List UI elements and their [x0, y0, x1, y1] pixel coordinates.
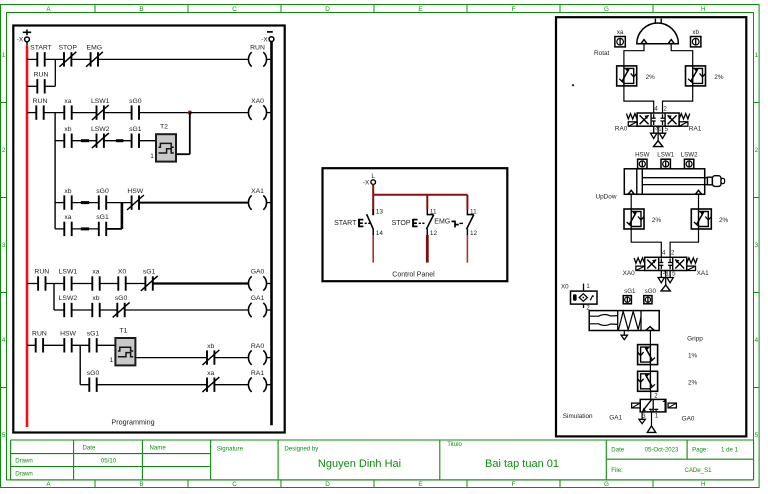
svg-text:Name: Name [150, 445, 167, 452]
wire throttle to valve RA port4 [624, 86, 654, 113]
svg-text:GA1: GA1 [251, 295, 265, 302]
wire sG0 to merge node C [106, 202, 131, 204]
svg-text:1 de 1: 1 de 1 [721, 447, 739, 454]
pushbutton START (NO, 13-14) [372, 209, 374, 215]
wire LSW1 to xa [72, 283, 93, 285]
throttle valve 2% (updow left) [624, 209, 644, 229]
svg-text:3: 3 [755, 242, 759, 249]
wire merge vertical node C (bold) [121, 203, 124, 229]
svg-text:T1: T1 [119, 328, 127, 335]
svg-text:F: F [512, 6, 516, 13]
svg-text:E: E [418, 6, 422, 13]
svg-text:T2: T2 [160, 124, 168, 131]
wire xa to LSW1 [72, 112, 97, 114]
svg-text:Date: Date [611, 447, 624, 454]
svg-text:G: G [604, 6, 609, 13]
wire STOP to EMG [71, 58, 90, 60]
wire drop to START (dark red) [372, 195, 374, 215]
svg-text:LSW2: LSW2 [91, 126, 110, 133]
wire HSW to sG1 [72, 344, 90, 346]
svg-text:Rotat: Rotat [594, 50, 609, 57]
wire xa to coil RA1 [214, 384, 248, 386]
wire RUN to node D [46, 283, 65, 285]
wire LSW1 to sG0 [104, 112, 132, 114]
svg-text:STOP: STOP [392, 220, 411, 227]
svg-text:HSW: HSW [127, 188, 143, 195]
wire sG0 to coil GA1 [125, 309, 249, 311]
stray dot [572, 84, 574, 86]
svg-text:5: 5 [755, 432, 759, 439]
svg-text:RA0: RA0 [615, 126, 628, 133]
svg-text:E: E [418, 481, 422, 488]
wire throttle 1% to 2% [649, 365, 651, 372]
wire below START (red) [372, 235, 374, 263]
svg-text:C: C [232, 481, 237, 488]
wire updow throttle to valve XA port4 [631, 229, 661, 257]
programming panel border [13, 26, 284, 433]
svg-text:2: 2 [663, 105, 667, 112]
wire rung1 rail to START [27, 58, 37, 60]
svg-text:Page:: Page: [692, 447, 708, 454]
svg-text:LSW1: LSW1 [657, 152, 674, 159]
svg-text:RA1: RA1 [251, 370, 264, 377]
svg-text:LSW1: LSW1 [91, 98, 110, 105]
svg-text:2%: 2% [719, 217, 729, 224]
wire below STOP (dark red bold) [426, 235, 429, 263]
svg-text:B: B [139, 481, 143, 488]
throttle valve 2% (gripper) [638, 371, 658, 391]
svg-text:RUN: RUN [250, 45, 265, 52]
svg-text:HSW: HSW [635, 152, 650, 159]
wire sG1 to timer T2 [139, 140, 156, 142]
svg-text:G: G [604, 481, 609, 488]
svg-text:Bai tap tuan 01: Bai tap tuan 01 [485, 458, 559, 470]
pushbutton STOP (NC, 11-12) [426, 209, 428, 215]
svg-text:-X: -X [261, 36, 268, 43]
svg-text:2%: 2% [652, 217, 662, 224]
link dash xb-LSW2 (bold) [81, 139, 89, 142]
wire xb to sG0 [72, 202, 99, 204]
svg-text:GA0: GA0 [251, 269, 265, 276]
svg-text:sG0: sG0 [129, 98, 142, 105]
svg-text:-X: -X [363, 180, 370, 187]
gripper exhaust [623, 331, 625, 336]
wire updow left port [630, 194, 632, 209]
wire sG0 to xa [97, 384, 207, 386]
svg-text:XA1: XA1 [251, 188, 264, 195]
wire branch vertical node D [53, 284, 55, 311]
wire below EMG (red) [466, 235, 468, 263]
svg-text:2%: 2% [714, 74, 724, 81]
svg-text:GA0: GA0 [682, 415, 695, 422]
svg-text:1: 1 [666, 272, 669, 278]
wire RUN to node B [44, 112, 65, 114]
svg-text:F: F [512, 481, 516, 488]
svg-text:Programming: Programming [111, 418, 154, 427]
valve XA0/XA1 (5/3 solenoid) [645, 257, 687, 270]
wire drop to EMG (dark red) [466, 195, 468, 210]
svg-text:05/10: 05/10 [101, 457, 117, 464]
wire T1 output to xb [135, 357, 207, 359]
svg-text:sG0: sG0 [87, 370, 100, 377]
svg-text:X0: X0 [118, 269, 127, 276]
svg-text:XA0: XA0 [251, 98, 264, 105]
valve GA1/GA0 (3/2 solenoid) [640, 399, 666, 412]
svg-text:4: 4 [662, 250, 666, 257]
svg-text:3: 3 [2, 242, 6, 249]
svg-text:H: H [701, 6, 706, 13]
svg-text:Gripp: Gripp [687, 335, 703, 342]
svg-text:xb: xb [64, 188, 71, 195]
wire RUN seal-in to branch node [45, 85, 56, 87]
wire xa to sG1 [72, 228, 99, 230]
wire throttle to valve RA port2 [663, 86, 693, 113]
svg-text:2%: 2% [688, 380, 698, 387]
wire LSW2 to sG1 [104, 140, 132, 142]
svg-text:sG0: sG0 [96, 188, 109, 195]
gripper actuator [589, 311, 659, 331]
svg-text:12: 12 [470, 230, 478, 237]
wire coil GA0 to right rail [267, 283, 272, 285]
control panel border [323, 168, 508, 281]
svg-text:sG0: sG0 [645, 288, 657, 295]
link dash LSW2-sG1 (bold) [116, 139, 124, 142]
svg-text:HSW: HSW [60, 331, 76, 338]
svg-text:Date: Date [83, 445, 96, 452]
svg-text:START: START [30, 45, 52, 52]
svg-text:05-Oct-2023: 05-Oct-2023 [645, 447, 679, 454]
svg-text:sG1: sG1 [87, 331, 100, 338]
svg-text:Drawn: Drawn [15, 470, 33, 477]
svg-text:UpDow: UpDow [596, 194, 617, 201]
wire coil RA1 to right rail [267, 384, 272, 386]
wire rotat right port to throttle [671, 44, 693, 66]
terminal -X (+) left [25, 37, 30, 42]
svg-text:4: 4 [755, 337, 759, 344]
svg-text:LSW2: LSW2 [59, 295, 78, 302]
throttle valve 2% (updow right) [691, 209, 711, 229]
wire rung5 rail to RUN [27, 344, 36, 346]
wire gripper to throttle 1% [649, 331, 651, 345]
svg-text:xa: xa [64, 98, 71, 105]
wire updow right port [698, 194, 700, 209]
wire branch vertical node A [54, 59, 56, 86]
svg-text:sG1: sG1 [624, 288, 636, 295]
svg-text:2%: 2% [646, 74, 656, 81]
svg-text:-X: -X [17, 37, 24, 44]
svg-text:LSW2: LSW2 [681, 152, 698, 159]
link dash xa-sG1 (bold) [81, 227, 89, 230]
svg-text:xb: xb [692, 29, 699, 36]
link dash xb-sG0 (bold) [81, 201, 89, 204]
wire T2 output to junction [176, 153, 190, 155]
svg-text:STOP: STOP [59, 45, 78, 52]
wire rung3 lower branch to xa [55, 228, 64, 230]
wire xa to X0 [100, 283, 119, 285]
simulation panel border [556, 17, 746, 436]
svg-text:sG1: sG1 [129, 126, 142, 133]
svg-text:Designed by: Designed by [284, 446, 319, 453]
wire branch vertical node B [54, 113, 56, 229]
svg-text:RUN: RUN [34, 269, 49, 276]
wire L drop (dark red) [372, 184, 374, 194]
wire sG1 to coil GA0 (bold) [153, 282, 249, 284]
wire rung3 node B to xb [55, 202, 64, 204]
wire coil GA1 to right rail [267, 309, 272, 311]
svg-text:RUN: RUN [34, 72, 49, 79]
svg-text:xa: xa [64, 214, 71, 221]
svg-text:1: 1 [755, 52, 759, 59]
svg-text:B: B [139, 6, 143, 13]
svg-text:xa: xa [617, 29, 624, 36]
svg-text:Drawn: Drawn [15, 457, 33, 464]
wire xb to coil RA0 [214, 357, 248, 359]
svg-text:LSW1: LSW1 [59, 269, 78, 276]
left power rail L+ (red) [26, 45, 29, 427]
svg-text:H: H [701, 481, 706, 488]
svg-text:xb: xb [64, 126, 71, 133]
svg-text:CADe_S1: CADe_S1 [684, 467, 712, 474]
wire branch D to LSW2 [54, 309, 64, 311]
svg-text:D: D [325, 6, 330, 13]
svg-text:2: 2 [2, 147, 6, 154]
svg-text:Control Panel: Control Panel [392, 271, 435, 278]
svg-text:xa: xa [92, 269, 99, 276]
wire rung2 rail to RUN [27, 112, 36, 114]
wire updow throttle to valve XA port2 [670, 229, 698, 257]
wire distribution bus (dark red) [373, 194, 467, 196]
wire xb to LSW2 [72, 140, 97, 142]
valve RA0/RA1 (5/3 solenoid) [637, 113, 679, 126]
wire START to node A [45, 58, 64, 60]
svg-text:Simulation: Simulation [563, 413, 593, 420]
svg-text:1: 1 [2, 52, 6, 59]
wire coil RA0 to right rail [267, 357, 272, 359]
svg-text:Signature: Signature [217, 446, 244, 453]
wire branch E to sG0 [80, 384, 89, 386]
wire sG1 to timer T1 [97, 344, 116, 346]
svg-text:RA1: RA1 [689, 126, 702, 133]
svg-text:2: 2 [755, 147, 759, 154]
svg-text:sG1: sG1 [96, 214, 109, 221]
wire coil XA1 to right rail [267, 202, 272, 204]
svg-text:C: C [232, 6, 237, 13]
right power rail (black) [270, 42, 273, 426]
svg-text:4: 4 [654, 105, 658, 112]
svg-text:GA1: GA1 [609, 415, 622, 422]
wire throttle to valve GA port 2 [649, 390, 652, 392]
wire RUN to HSW [43, 344, 64, 346]
wire coil RUN to right rail [267, 58, 272, 60]
svg-text:Titulo: Titulo [447, 441, 462, 448]
svg-text:1: 1 [110, 357, 114, 364]
svg-text:X0: X0 [561, 284, 569, 291]
wire junction to coil XA0 [190, 112, 249, 114]
junction dot (red) [188, 111, 192, 115]
wire branch B to xb [55, 140, 64, 142]
GA valve exhaust [641, 412, 643, 419]
svg-text:RA0: RA0 [251, 343, 264, 350]
svg-text:1: 1 [150, 153, 154, 160]
svg-text:5: 5 [2, 432, 6, 439]
throttle valve 2% (rotat left) [617, 66, 637, 86]
svg-text:Nguyen Dinh Hai: Nguyen Dinh Hai [318, 458, 401, 470]
wire rotat left port to throttle [624, 44, 644, 66]
svg-text:RUN: RUN [32, 331, 47, 338]
wire rung1 parallel branch rail to RUN contact [27, 85, 37, 87]
wire LSW2 to xb [72, 309, 93, 311]
svg-text:XA0: XA0 [623, 270, 636, 277]
wire HSW to coil XA1 [139, 202, 248, 204]
wire coil XA0 to right rail [267, 112, 272, 114]
wire EMG to coil RUN [98, 58, 248, 60]
GA valve supply [651, 412, 653, 426]
svg-text:EMG: EMG [434, 219, 450, 226]
wire X0 to sG1 [126, 283, 146, 285]
svg-text:5: 5 [665, 126, 669, 133]
throttle valve 1% [638, 345, 658, 365]
wire sG1 to merge node C [106, 228, 122, 230]
svg-text:sG0: sG0 [115, 295, 128, 302]
pushbutton EMG (NC mushroom, 11-12) [466, 209, 468, 215]
svg-text:2: 2 [671, 250, 675, 257]
wire drop to STOP (dark red) [426, 195, 428, 210]
svg-text:sG1: sG1 [143, 269, 156, 276]
svg-text:RUN: RUN [33, 98, 48, 105]
svg-text:14: 14 [376, 230, 384, 237]
svg-text:4: 4 [2, 337, 6, 344]
svg-text:5: 5 [672, 270, 676, 277]
wire xb to sG0 [100, 309, 118, 311]
svg-text:1%: 1% [688, 352, 698, 359]
svg-text:L: L [371, 173, 375, 180]
svg-text:13: 13 [376, 208, 384, 215]
svg-text:START: START [334, 220, 357, 227]
svg-text:xb: xb [92, 295, 99, 302]
svg-text:12: 12 [430, 230, 438, 237]
svg-text:EMG: EMG [87, 45, 102, 52]
svg-text:File:: File: [611, 467, 623, 474]
wire sG0 to junction [139, 112, 190, 114]
svg-text:D: D [325, 481, 330, 488]
svg-text:xb: xb [207, 343, 214, 350]
wire branch vertical node E [79, 345, 81, 384]
svg-text:xa: xa [207, 370, 214, 377]
terminal -X (-) right [269, 37, 274, 42]
wire rung4 rail to RUN [27, 283, 38, 285]
svg-text:XA1: XA1 [697, 270, 710, 277]
svg-text:1: 1 [658, 127, 661, 133]
throttle valve 2% (rotat right) [686, 66, 706, 86]
